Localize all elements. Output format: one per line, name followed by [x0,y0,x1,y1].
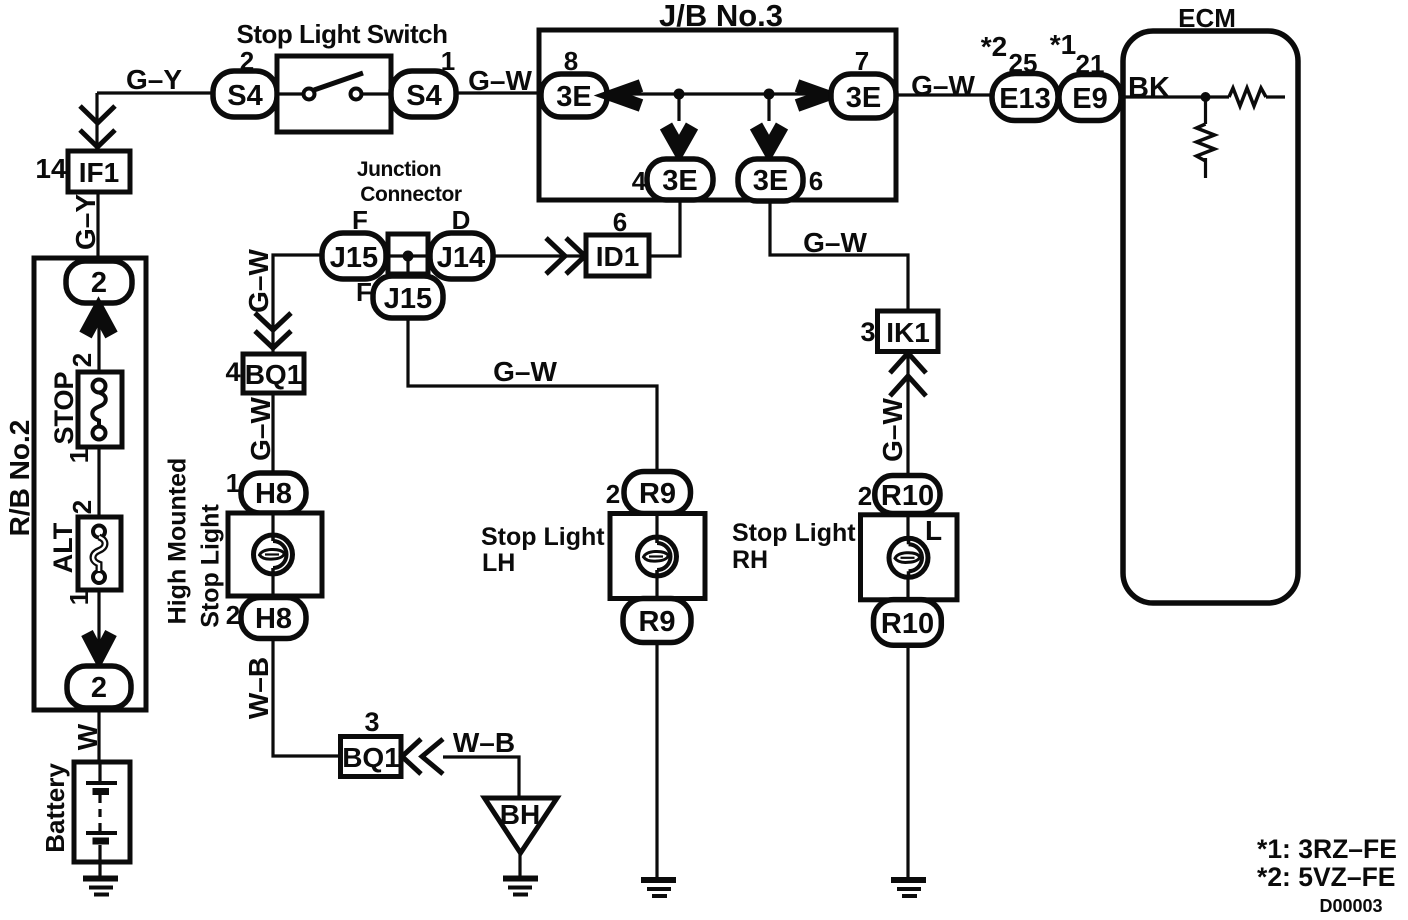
svg-text:IF1: IF1 [79,157,119,188]
connector S4 pin 2 [213,71,277,117]
svg-text:*2: 5VZ–FE: *2: 5VZ–FE [1257,862,1395,892]
svg-text:RH: RH [732,546,768,574]
connector E13 pin 25 label [1009,48,1038,78]
svg-text:H8: H8 [255,603,292,635]
junction dot C [403,251,414,262]
connector BQ1 pin 3 label [364,707,379,737]
svg-text:G–W: G–W [243,249,274,313]
junction dot B [764,89,775,100]
fuse STOP label rotated [49,371,79,444]
ECM title [1178,3,1236,33]
connector S4 pin 1 label [441,46,455,76]
bulb stop light RH [889,538,928,577]
wire label G-W [468,65,532,96]
high mounted stop light label rotated [164,458,225,628]
svg-text:W: W [72,723,103,750]
wire 3E6 down right to IK1 [770,201,908,311]
wire label G-W rotated right [877,398,908,462]
connector IK1 [878,311,939,352]
svg-text:E13: E13 [999,83,1051,115]
svg-text:R9: R9 [638,606,675,638]
svg-text:W–B: W–B [243,657,274,719]
svg-text:S4: S4 [227,80,262,112]
wire W-B from BH [443,757,519,798]
connector J15 second [373,276,443,318]
wire 3E4 down to ID1 [649,200,680,256]
high mounted stop light box [228,513,322,596]
connector S4 pin 2 label [240,46,254,76]
arrow chevrons down to IF1 [80,106,115,147]
wire J15 second down to stop light LH [408,318,657,472]
svg-text:BK: BK [1128,72,1170,104]
connector 3E pin 6 [738,159,803,201]
stop light switch label [236,19,447,49]
svg-text:1: 1 [226,468,240,498]
stop light switch box [277,56,391,132]
wire label G-W rotated lower [245,397,276,461]
connector 3E pin 7 [831,74,896,118]
connector R9 pin 2 label [606,479,620,509]
connector J15 F label [352,205,368,235]
wire R/B vertical [97,302,100,667]
wire BK inside ECM [1121,95,1285,98]
svg-text:G–W: G–W [911,70,975,101]
wire J15 to corner left [273,255,322,354]
svg-text:2: 2 [91,267,107,299]
wire label G-W above LH wire [493,356,557,387]
wire down from ECM dot [1204,97,1207,178]
wire label BK [1128,72,1170,104]
svg-text:S4: S4 [406,80,441,112]
svg-text:D00003: D00003 [1319,896,1382,916]
svg-text:BQ1: BQ1 [245,359,303,390]
wire inside J/B [607,92,831,95]
svg-text:2: 2 [858,481,872,511]
battery symbol [86,762,117,877]
R/B No.2 label rotated [4,420,35,537]
wire J14 to ID1 [493,254,586,257]
wire J/B to E13 [896,93,992,96]
wire RH column [906,513,909,877]
svg-text:3E: 3E [846,82,881,114]
connector E9 label *1 [1050,29,1076,60]
wire IF1 to R/B No.2 [96,192,99,261]
wire BQ1 to H8 [271,393,274,473]
bulb high mounted stop light [254,535,293,574]
svg-text:*1: 3RZ–FE: *1: 3RZ–FE [1257,834,1397,864]
wire S4 to J/B [456,91,539,94]
svg-text:1: 1 [64,449,94,463]
connector J14 [430,233,493,279]
footnote *1 3RZ-FE [1257,834,1397,864]
connector 3E pin 8 [541,74,607,117]
ground stop light RH [891,880,926,896]
connector E13 label *2 [981,31,1007,62]
connector BQ1 pin 3 [341,737,402,777]
ground BH triangle [485,798,558,853]
svg-text:6: 6 [809,166,823,196]
svg-text:E9: E9 [1072,83,1107,115]
connector 3E pin 8 label [564,46,578,76]
svg-text:3E: 3E [556,81,591,113]
solid arrow left toward 3E8 [613,86,641,106]
svg-text:G–W: G–W [877,398,908,462]
arrow chevrons down to BQ1 [255,313,291,348]
svg-text:G–W: G–W [493,356,557,387]
connector H8 pin 2 label [226,600,240,630]
svg-text:Battery: Battery [40,763,70,853]
svg-text:G–Y: G–Y [126,64,182,95]
wire LH column [655,513,658,877]
battery box [74,762,130,862]
wire stub down from dot A [677,94,680,121]
connector ID1 [586,235,649,276]
connector R9 bottom [623,599,691,643]
fuse ALT pin 2 label rotated [67,500,97,514]
svg-text:2: 2 [67,353,97,367]
wire G-Y horizontal top-left [97,91,213,94]
footnote *2 5VZ-FE [1257,862,1395,892]
svg-text:G–Y: G–Y [70,194,101,250]
connector 2 bottom [67,666,131,708]
connector E9 pin 21 label [1076,49,1105,79]
connector H8 pin 1 label [226,468,240,498]
svg-text:G–W: G–W [245,397,276,461]
solid arrow right toward 3E7 [797,86,825,106]
connector R9 top [624,472,691,514]
J/B No.3 title [659,0,783,33]
ground battery [83,879,118,895]
svg-text:4: 4 [225,357,240,387]
svg-text:2: 2 [91,672,107,704]
connector IF1 [68,151,130,192]
wire label W rotated [72,723,103,750]
stop light LH box [610,514,705,599]
svg-text:*2: *2 [981,31,1007,62]
connector H8 pin 2 [241,598,306,639]
svg-text:Stop Light: Stop Light [197,504,225,628]
wire IK1 to R10 [906,352,909,477]
connector S4 pin 1 [391,71,456,117]
bulb label L [925,515,942,546]
svg-text:3: 3 [860,317,875,347]
svg-text:J14: J14 [437,242,485,274]
svg-text:J15: J15 [384,283,432,315]
arrow chevrons up from R10 [890,353,926,396]
svg-text:2: 2 [67,500,97,514]
fuse STOP pin 1 label rotated [64,449,94,463]
arrow chevrons left to BQ1 pin 3 [402,739,443,774]
svg-text:2: 2 [606,479,620,509]
wire label W-B rotated [243,657,274,719]
svg-text:R10: R10 [881,480,934,512]
junction dot ECM [1201,92,1211,102]
svg-text:R10: R10 [881,608,934,640]
connector BQ1 pin 4 label [225,357,240,387]
svg-text:Connector: Connector [360,183,462,206]
connector R10 pin 2 label [858,481,872,511]
ground BH [503,879,538,895]
connector R10 bottom [874,600,942,646]
svg-text:3E: 3E [662,165,697,197]
wire label G-W right of J/B [911,70,975,101]
solid arrow down to 3E4 [666,126,692,149]
svg-text:3: 3 [364,707,379,737]
junction connector square [388,234,428,277]
wire vertical to IF1 [95,93,98,151]
stop light RH label [732,519,856,574]
ECM box [1123,31,1298,603]
svg-text:2: 2 [226,600,240,630]
connector IF1 pin 14 label [35,153,67,184]
svg-text:1: 1 [64,591,94,605]
solid arrow down in R/B [87,633,111,656]
connector E13 [992,74,1058,121]
svg-text:W–B: W–B [453,727,515,758]
wire label G-Y [126,64,182,95]
fuse STOP [78,372,122,447]
svg-text:STOP: STOP [49,371,79,444]
svg-text:Stop Light: Stop Light [481,523,605,551]
svg-text:L: L [925,515,942,546]
svg-text:F: F [356,277,372,307]
solid arrow down to 3E6 [756,126,782,149]
svg-text:G–W: G–W [468,65,532,96]
wire R/B to battery [97,708,100,762]
wire label G-W rotated upper [243,249,274,313]
svg-text:High Mounted: High Mounted [164,458,192,625]
connector 3E pin 7 label [855,46,869,76]
fuse STOP pin 2 label rotated [67,353,97,367]
svg-text:G–W: G–W [803,227,867,258]
svg-text:3E: 3E [753,165,788,197]
wire H8 down to BQ1 pin3 [273,638,340,756]
svg-text:14: 14 [35,153,67,184]
svg-text:Junction: Junction [357,158,441,181]
stop light LH label [481,523,605,577]
connector IK1 pin 3 label [860,317,875,347]
junction dot A [674,89,685,100]
svg-text:Stop Light: Stop Light [732,519,856,547]
svg-text:*1: *1 [1050,29,1076,60]
svg-text:BQ1: BQ1 [342,742,400,773]
solid arrow up in R/B [86,311,112,335]
wire through bulb box [271,513,274,597]
svg-text:ID1: ID1 [596,241,640,272]
arrow chevrons right to ID1 [546,238,585,274]
connector J15 second F label [356,277,372,307]
connector ID1 pin 6 label [613,207,627,237]
wire through RH box [906,515,909,600]
connector R10 top [875,476,940,514]
svg-text:Stop Light Switch: Stop Light Switch [236,19,447,49]
connector E9 [1059,75,1121,121]
svg-text:ALT: ALT [48,522,78,573]
junction connector label [357,158,462,206]
battery label rotated [40,763,70,853]
resistor horizontal in ECM [1229,88,1266,106]
wire through LH box [655,514,658,599]
wire label G-W above RH wire [803,227,867,258]
fuse ALT [78,517,121,590]
resistor vertical in ECM [1197,124,1215,161]
svg-text:H8: H8 [255,478,292,510]
svg-text:LH: LH [482,549,515,577]
wire BH stub [518,853,521,877]
junction block J/B No.3 box [539,30,896,200]
connector J15 [322,233,386,279]
connector 3E pin 4 [647,159,713,200]
connector J14 D label [452,205,471,235]
connector 3E pin 4 label [632,166,647,196]
svg-text:BH: BH [500,799,540,830]
connector 3E pin 6 label [809,166,823,196]
wire stub down from dot B [767,94,770,121]
wire label W-B horizontal [453,727,515,758]
fuse ALT pin 1 label rotated [64,591,94,605]
relay block R/B No.2 box [34,258,146,710]
connector H8 pin 1 [241,473,306,513]
svg-text:R/B No.2: R/B No.2 [4,420,35,537]
svg-text:IK1: IK1 [886,317,930,348]
stop light RH box [861,515,958,600]
wire label G-Y rotated [70,194,101,250]
svg-text:R9: R9 [639,478,676,510]
diagram number D00003 [1319,896,1382,916]
connector 2 top [66,261,132,303]
connector BQ1 pin 4 [243,354,304,393]
ground stop light LH [641,880,676,896]
svg-text:J15: J15 [330,242,378,274]
fuse ALT label rotated [48,522,78,573]
bulb stop light LH [638,537,677,576]
